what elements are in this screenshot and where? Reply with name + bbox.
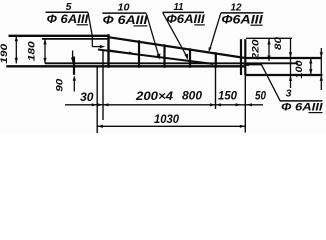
callout 5 arrow b [109,50,130,53]
dim 220 line [268,39,270,61]
dim 1030 line [97,125,245,127]
svg-text:180: 180 [27,40,38,61]
bar top-left horizontal [9,35,110,37]
svg-text:90: 90 [55,78,66,92]
svg-text:80: 80 [273,36,284,50]
svg-text:1030: 1030 [154,114,180,126]
svg-text:11: 11 [174,1,184,13]
svg-text:190: 190 [0,43,10,64]
svg-text:10: 10 [118,1,130,13]
svg-text:30: 30 [80,90,94,104]
vertical bar 1 [107,34,109,68]
bottom chord lower line [6,65,245,67]
bottom dimension chain line [65,104,263,106]
vertical bar 2 [138,40,140,68]
callout 12 leader [210,13,221,50]
dim 90 lower arrow [73,80,75,92]
svg-text:Ф 6АIII: Ф 6АIII [281,102,323,114]
svg-text:12: 12 [231,1,242,13]
dim 90 upper arrow [72,51,74,59]
extension of bar 6b down [244,75,246,133]
svg-text:5: 5 [66,1,72,13]
bar second horizontal [42,38,110,40]
callout 3 overline [280,100,323,102]
extension line A [96,66,98,133]
callout 12 overline [221,12,263,14]
top chord inclined then horizontal [109,37,323,58]
callout 10 overline [102,12,146,14]
dim 100 line [310,58,312,75]
svg-text:220: 220 [251,39,262,61]
dim 180 line [44,39,46,64]
dim 80 line [290,38,292,88]
callout 5 arrow a [91,44,93,46]
vertical bar 5 [215,52,217,68]
left dowel bar [73,57,75,75]
outer right dim line [320,48,322,90]
callout 3 leader [248,65,280,101]
svg-text:Ф6АIII: Ф6АIII [167,14,206,26]
callout 11 overline [163,11,205,13]
svg-text:50: 50 [255,89,266,103]
vertical bar 4 [189,48,191,68]
svg-text:3: 3 [286,88,292,100]
vertical bar 3 [163,44,165,68]
top right extension line [246,37,292,39]
svg-text:800: 800 [182,88,202,102]
bottom chord upper line [45,62,298,64]
svg-text:100: 100 [294,60,305,79]
svg-text:150: 150 [218,89,237,103]
callout 5 leader [88,12,92,44]
svg-text:Ф 6АIII: Ф 6АIII [103,15,149,27]
callout 11 leader [163,13,186,56]
extension line C [215,66,217,109]
vertical bar 6a [240,39,242,75]
extension line B [102,51,104,120]
vertical bar 6b [244,39,246,75]
svg-text:200×4: 200×4 [135,89,173,103]
callout 5 overline [46,11,89,13]
dim 190 line [15,36,17,64]
inclined inner bar [98,50,214,65]
bottom bar right end [245,74,322,76]
callout 10 leader [146,14,158,56]
